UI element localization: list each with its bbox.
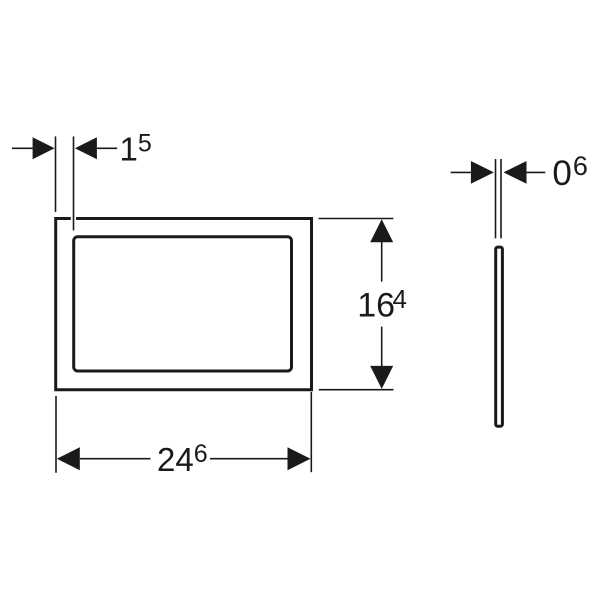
dimension 0.6 front face extension line	[495, 159, 497, 238]
dimension 24.6 right extension line	[310, 393, 312, 472]
dimension 1.5 right tail line	[97, 147, 117, 149]
dimension 0.6 left tail line	[451, 171, 471, 173]
svg-text:164: 164	[357, 284, 407, 325]
svg-text:15: 15	[120, 129, 152, 167]
side view plate outline	[496, 247, 503, 426]
dimension 24.6 left line segment	[80, 458, 151, 460]
dimension 16.4 upper line segment	[381, 242, 383, 282]
dimension 24.6 left arrowhead	[57, 447, 80, 470]
dimension 16.4 upper arrowhead	[370, 219, 393, 242]
dimension 0.6 back face extension line	[500, 159, 502, 238]
dimension 1.5 left arrowhead	[33, 137, 55, 159]
dimension 24.6 left extension line	[55, 397, 57, 473]
front view inner panel outline	[74, 237, 292, 371]
dimension 16.4 lower arrowhead	[370, 366, 393, 389]
svg-text:246: 246	[157, 440, 208, 478]
dimension 16.4 top extension line	[319, 218, 394, 220]
dimension 0.6 right tail line	[527, 171, 546, 173]
dimension 1.5 extension line at inner edge	[73, 137, 75, 230]
dimension 16.4 bottom extension line	[319, 389, 394, 391]
dimension 1.5 extension line at outer edge	[55, 137, 57, 211]
dimension 16.4 lower line segment	[381, 327, 383, 366]
dimension 1.5 right arrowhead	[75, 137, 97, 159]
svg-text:06: 06	[552, 151, 588, 193]
dimension 24.6 right arrowhead	[288, 447, 311, 470]
dimension 0.6 right arrowhead	[504, 161, 527, 184]
dimension 0.6 left arrowhead	[471, 161, 494, 184]
dimension 24.6 right line segment	[210, 458, 288, 460]
dimension 1.5 left tail line	[12, 147, 33, 149]
front view outer frame outline	[56, 219, 312, 390]
